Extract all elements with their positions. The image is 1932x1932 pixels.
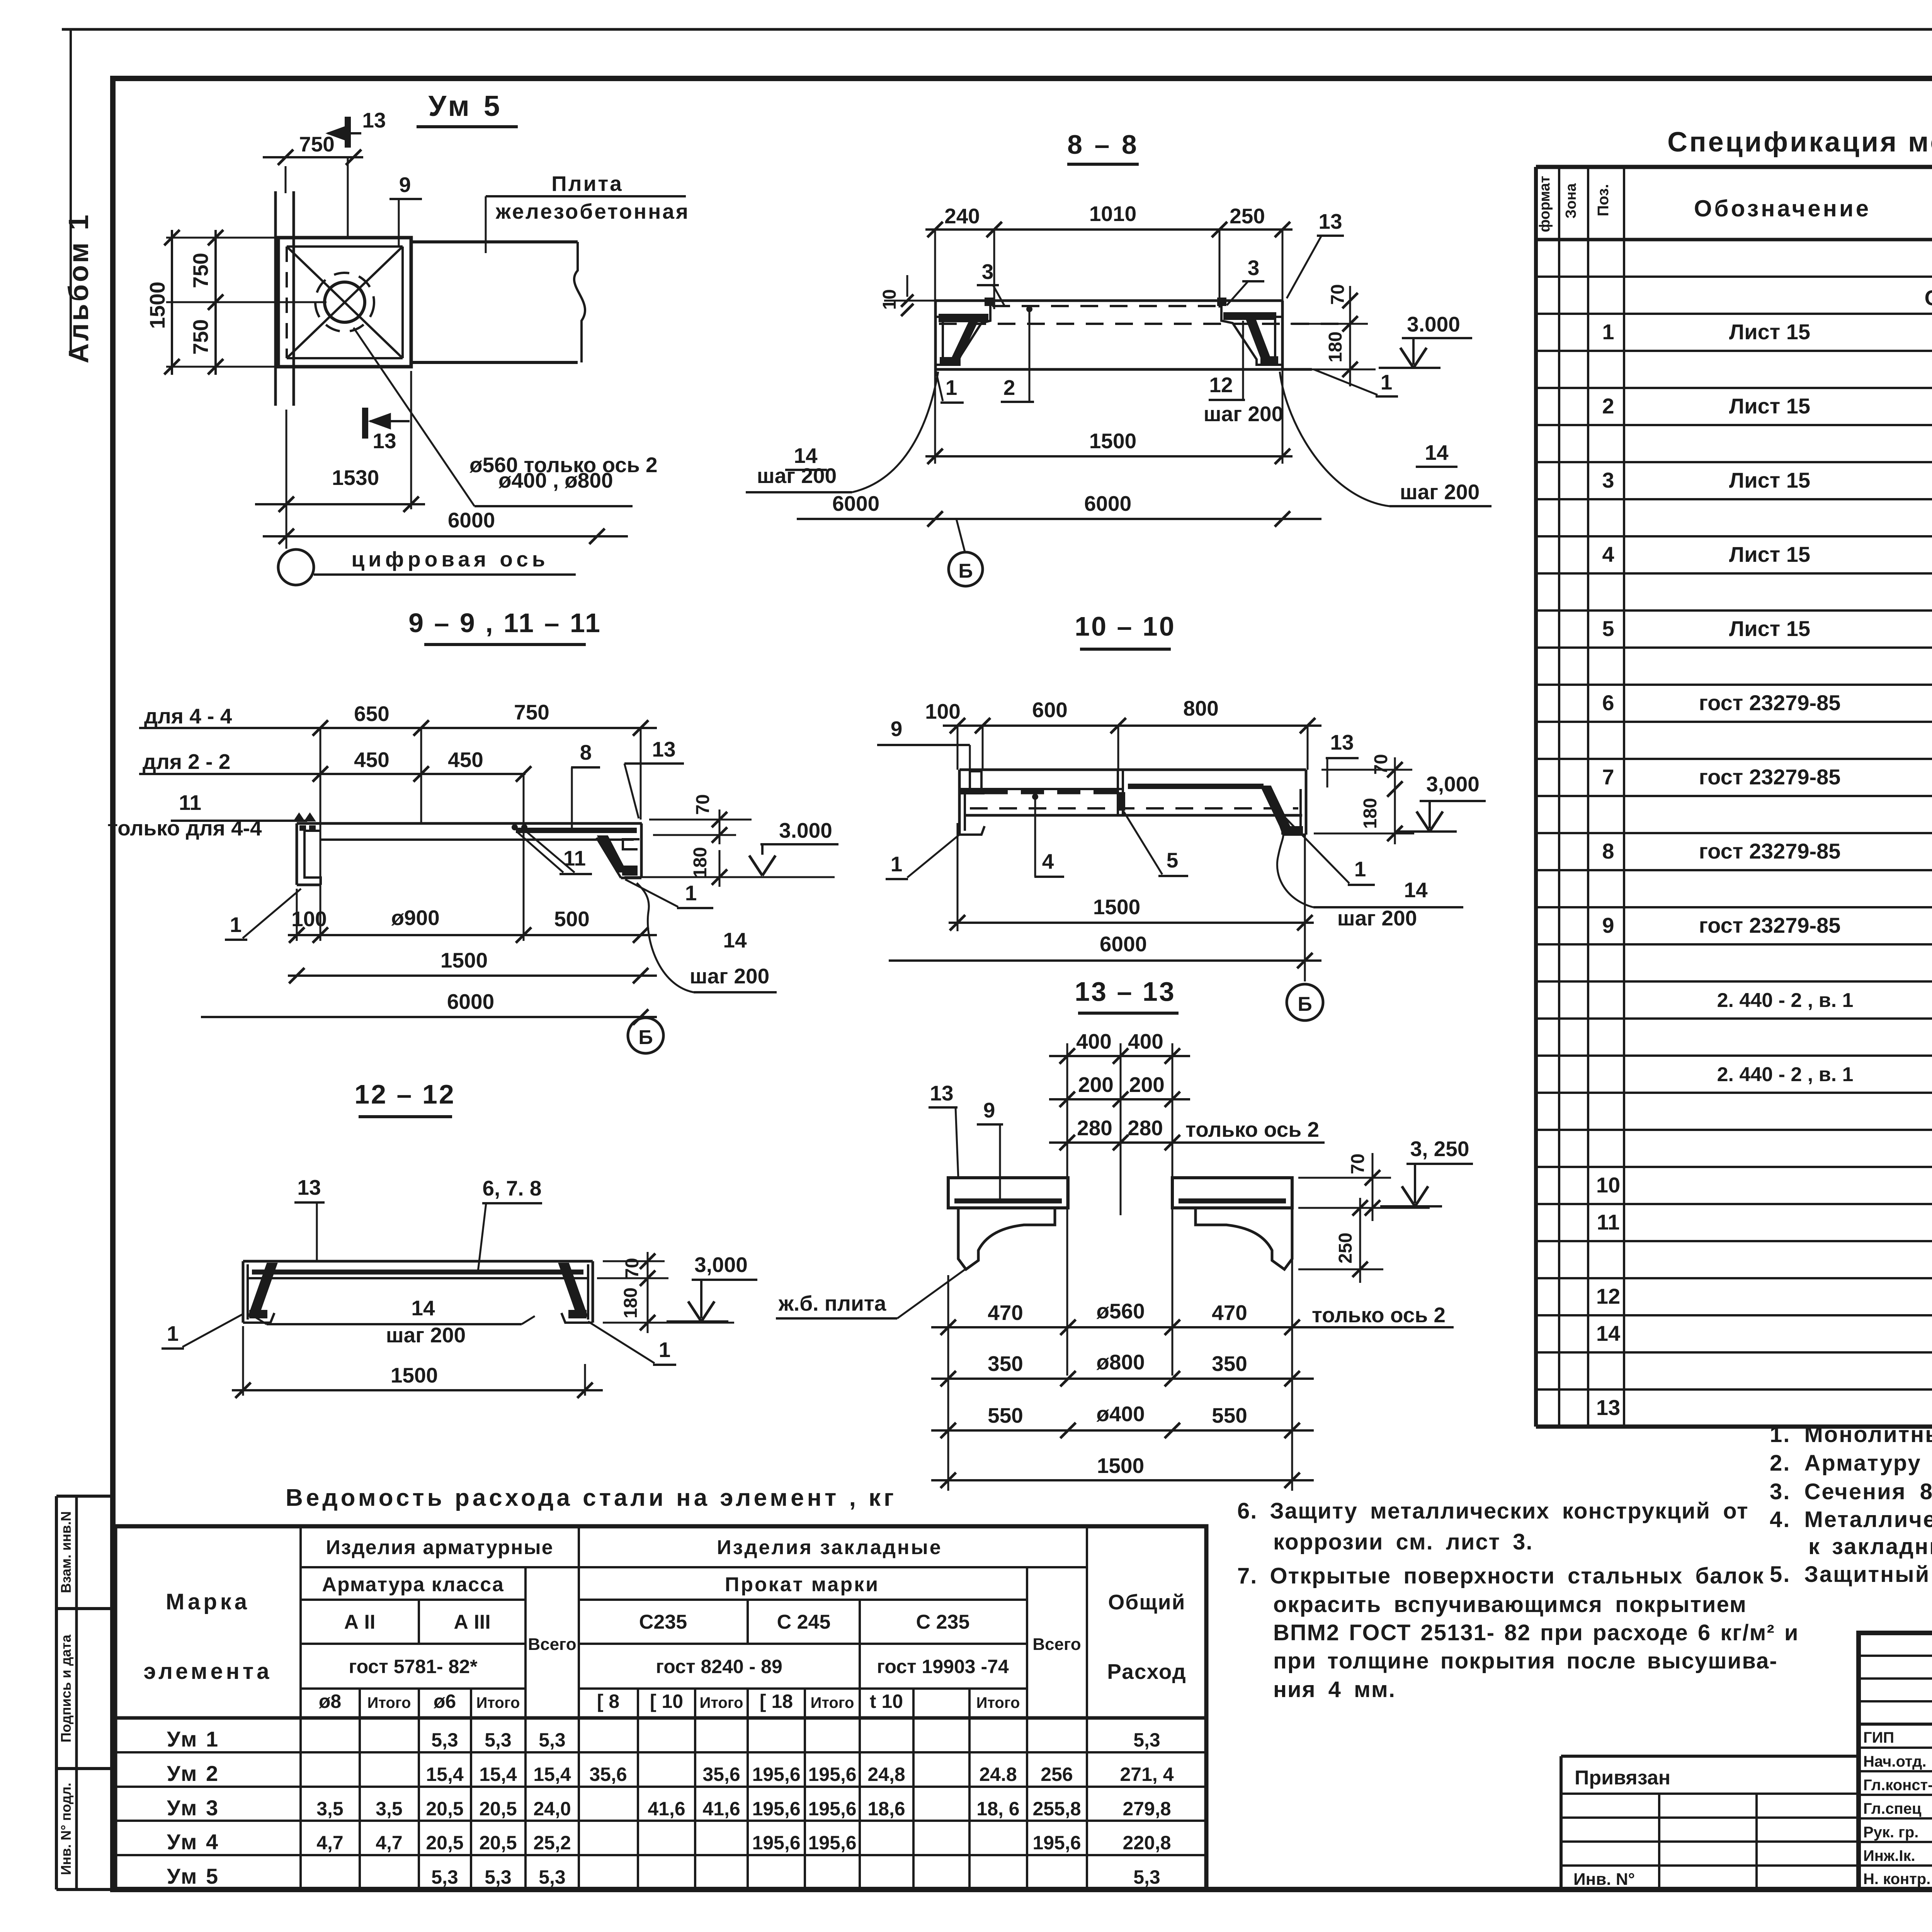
svg-text:20,5: 20,5 xyxy=(426,1798,463,1820)
dim row 350 f800 350 xyxy=(931,1378,1314,1380)
svg-text:5,3: 5,3 xyxy=(1133,1866,1160,1888)
left channel 12-12 xyxy=(242,1261,245,1323)
digital axis circle xyxy=(278,549,314,585)
svg-text:800: 800 xyxy=(1183,696,1219,720)
right diagonal dark 12-12 xyxy=(559,1264,587,1316)
svg-text:Инв. N° подл.: Инв. N° подл. xyxy=(58,1782,74,1875)
svg-text:13: 13 xyxy=(1318,209,1342,233)
opening circle solid xyxy=(325,282,365,322)
dim 1500 12-12 xyxy=(232,1389,603,1391)
left top tab poz9 xyxy=(970,771,981,789)
svg-text:35,6: 35,6 xyxy=(589,1764,627,1785)
svg-text:5,3: 5,3 xyxy=(485,1729,512,1751)
svg-text:18,6: 18,6 xyxy=(867,1798,905,1820)
svg-text:350: 350 xyxy=(988,1352,1023,1376)
left support diagonal dark xyxy=(950,321,978,363)
svg-text:25,2: 25,2 xyxy=(533,1832,571,1854)
svg-text:4: 4 xyxy=(1602,542,1614,566)
svg-text:Сборочные единицы: Сборочные единицы xyxy=(1925,286,1932,310)
spec table verticals xyxy=(1534,167,1538,1427)
dim 6000 8-8 xyxy=(797,518,1321,520)
svg-text:2. Арматуру сеток в местах: 2. Арматуру сеток в местах отверстий выр… xyxy=(1770,1451,1932,1476)
svg-text:10: 10 xyxy=(879,289,900,310)
bottom dim verticals 13-13 xyxy=(947,1275,949,1491)
svg-text:4,7: 4,7 xyxy=(316,1832,344,1854)
svg-text:1: 1 xyxy=(659,1338,671,1362)
svg-text:1500: 1500 xyxy=(1097,1454,1144,1478)
leader from circle to labels xyxy=(354,328,474,506)
svg-text:2: 2 xyxy=(1602,394,1614,418)
svg-text:250: 250 xyxy=(1335,1233,1356,1264)
svg-text:ВПМ2 ГОСТ 25131- 82 при рас: ВПМ2 ГОСТ 25131- 82 при расходе 6 кг/м² … xyxy=(1273,1620,1799,1645)
svg-text:Лист 15: Лист 15 xyxy=(1729,542,1810,566)
svg-text:коррозии см. лист 3.: коррозии см. лист 3. xyxy=(1273,1529,1533,1554)
svg-text:280: 280 xyxy=(1128,1116,1163,1140)
svg-text:1: 1 xyxy=(1602,320,1614,344)
svg-text:Итого: Итого xyxy=(976,1694,1020,1711)
slab top line 10-10 xyxy=(959,769,1306,771)
dim 1500 8-8 xyxy=(925,455,1293,457)
svg-text:С 235: С 235 xyxy=(916,1611,970,1633)
dim 6000 9-9 xyxy=(201,1016,657,1018)
svg-text:Подпись и дата: Подпись и дата xyxy=(58,1634,74,1743)
svg-text:6000: 6000 xyxy=(832,492,879,515)
svg-text:4: 4 xyxy=(1042,849,1054,873)
svg-text:470: 470 xyxy=(1212,1301,1247,1325)
svg-text:100: 100 xyxy=(925,699,961,723)
svg-text:750: 750 xyxy=(189,319,213,355)
svg-text:180: 180 xyxy=(621,1287,641,1318)
right end channel hook 9-9 xyxy=(623,839,639,849)
svg-text:14: 14 xyxy=(1425,440,1449,464)
digital axis label line xyxy=(314,573,576,576)
svg-text:[ 10: [ 10 xyxy=(650,1690,683,1712)
svg-text:Зона: Зона xyxy=(1563,183,1579,219)
svg-text:250: 250 xyxy=(1230,204,1265,228)
dim 6000 10-10 xyxy=(889,959,1321,962)
svg-text:Инж.Iк.: Инж.Iк. xyxy=(1863,1847,1915,1864)
svg-text:только ось 2: только ось 2 xyxy=(1312,1303,1446,1327)
section cut mark 13 top xyxy=(345,117,351,148)
svg-text:180: 180 xyxy=(1325,332,1346,362)
svg-text:400: 400 xyxy=(1128,1029,1163,1053)
dim 6000 plan xyxy=(263,535,628,537)
svg-text:5. Защитный слой до рабоче: 5. Защитный слой до рабочей арматуры - 2… xyxy=(1770,1562,1932,1587)
svg-text:15,4: 15,4 xyxy=(426,1764,464,1785)
dim 100 f900 500 xyxy=(288,934,657,936)
svg-text:20,5: 20,5 xyxy=(479,1798,517,1820)
svg-text:10 – 10: 10 – 10 xyxy=(1075,611,1176,641)
svg-text:3: 3 xyxy=(1602,468,1614,492)
svg-text:Н. контр.: Н. контр. xyxy=(1863,1871,1930,1888)
svg-text:1500: 1500 xyxy=(391,1363,438,1387)
svg-text:180: 180 xyxy=(1360,798,1381,829)
svg-text:750: 750 xyxy=(189,253,213,288)
svg-text:6: 6 xyxy=(1602,690,1614,715)
svg-text:8 – 8: 8 – 8 xyxy=(1067,129,1139,160)
plate band bottom line xyxy=(411,361,578,364)
svg-text:Гл.спец: Гл.спец xyxy=(1863,1800,1922,1817)
slab dashed line 10-10 xyxy=(970,807,1298,810)
svg-text:1: 1 xyxy=(1381,370,1393,394)
svg-text:70: 70 xyxy=(693,794,713,815)
dim 750 750 left vertical xyxy=(214,230,217,375)
dim 1500 10-10 xyxy=(949,922,1314,924)
svg-text:24,8: 24,8 xyxy=(867,1764,905,1785)
svg-text:15,4: 15,4 xyxy=(533,1764,571,1785)
svg-text:А III: А III xyxy=(454,1611,490,1633)
svg-text:1: 1 xyxy=(230,913,242,937)
dim 400 400 xyxy=(1049,1055,1190,1057)
svg-text:Итого: Итого xyxy=(367,1694,411,1711)
svg-text:13: 13 xyxy=(297,1175,321,1199)
svg-text:С 245: С 245 xyxy=(777,1611,831,1633)
svg-text:5,3: 5,3 xyxy=(431,1866,458,1888)
dim 200 200 xyxy=(1049,1098,1190,1100)
svg-text:14: 14 xyxy=(723,928,747,952)
plate break line xyxy=(574,242,585,362)
section cut mark 13 bottom xyxy=(362,408,368,439)
right channel 10-10 xyxy=(1305,770,1308,835)
svg-text:Лист 15: Лист 15 xyxy=(1729,468,1810,492)
svg-text:ø8: ø8 xyxy=(319,1690,341,1712)
spec table row lines xyxy=(1536,276,1932,278)
svg-text:240: 240 xyxy=(944,204,980,228)
svg-text:гост 23279-85: гост 23279-85 xyxy=(1699,765,1841,789)
svg-text:элемента: элемента xyxy=(143,1659,272,1684)
svg-text:13 – 13: 13 – 13 xyxy=(1075,976,1176,1007)
svg-text:ж.б. плита: ж.б. плита xyxy=(778,1291,886,1315)
svg-text:шаг 200: шаг 200 xyxy=(1337,906,1417,930)
mesh dots on plate xyxy=(512,824,518,830)
svg-text:Итого: Итого xyxy=(476,1694,520,1711)
svg-text:Рук. гр.: Рук. гр. xyxy=(1863,1824,1918,1841)
svg-text:195,6: 195,6 xyxy=(1032,1832,1081,1854)
svg-text:шаг 200: шаг 200 xyxy=(690,964,769,988)
dim 280 280 только ось 2 xyxy=(1049,1141,1325,1144)
svg-text:2: 2 xyxy=(1003,376,1015,400)
svg-text:7: 7 xyxy=(1602,765,1614,789)
svg-text:9: 9 xyxy=(1602,913,1614,937)
svg-text:7. Открытые поверхности стал: 7. Открытые поверхности стальных балок xyxy=(1237,1563,1764,1588)
svg-text:6000: 6000 xyxy=(1100,932,1147,956)
svg-text:400: 400 xyxy=(1076,1029,1112,1053)
svg-text:для 4 - 4: для 4 - 4 xyxy=(144,704,232,728)
slab bottom line 10-10 xyxy=(966,814,1302,817)
svg-text:195,6: 195,6 xyxy=(752,1764,800,1785)
svg-text:70: 70 xyxy=(1371,754,1391,774)
svg-text:Изделия арматурные: Изделия арматурные xyxy=(326,1536,553,1559)
left stamp boxes xyxy=(56,1495,111,1498)
svg-text:8: 8 xyxy=(580,740,592,764)
label 4 with leader xyxy=(1032,794,1038,800)
svg-text:24.8: 24.8 xyxy=(979,1764,1017,1785)
svg-text:Альбом 1: Альбом 1 xyxy=(63,213,94,364)
dim 1500 left vertical xyxy=(171,230,173,375)
title block outer xyxy=(1859,1633,1932,1889)
svg-text:Взам. инв.N: Взам. инв.N xyxy=(58,1511,74,1593)
svg-text:окрасить вспучивающимся покр: окрасить вспучивающимся покрытием xyxy=(1273,1592,1747,1617)
svg-text:Плита: Плита xyxy=(551,172,623,196)
svg-text:Всего: Всего xyxy=(528,1635,576,1654)
svg-text:Прокат марки: Прокат марки xyxy=(725,1573,879,1596)
dim row 550 f400 550 xyxy=(931,1429,1314,1432)
svg-text:Б: Б xyxy=(638,1026,653,1049)
svg-text:6, 7. 8: 6, 7. 8 xyxy=(483,1176,542,1200)
svg-text:Итого: Итого xyxy=(700,1694,743,1711)
svg-text:14: 14 xyxy=(411,1296,435,1320)
mid joint 10-10 xyxy=(1117,770,1119,815)
left support outline xyxy=(934,301,937,369)
svg-text:13: 13 xyxy=(372,429,396,453)
svg-text:Лист 15: Лист 15 xyxy=(1729,394,1810,418)
svg-text:ø400 , ø800: ø400 , ø800 xyxy=(498,468,613,492)
svg-text:650: 650 xyxy=(354,702,389,726)
svg-text:9 – 9 , 11 – 11: 9 – 9 , 11 – 11 xyxy=(408,608,602,638)
svg-text:70: 70 xyxy=(1328,284,1348,304)
svg-text:13: 13 xyxy=(652,737,675,761)
svg-text:1500: 1500 xyxy=(440,948,488,972)
dim 1500 9-9 xyxy=(288,975,657,977)
svg-text:для 2 - 2: для 2 - 2 xyxy=(143,750,230,774)
svg-text:255,8: 255,8 xyxy=(1032,1798,1081,1820)
svg-text:195,6: 195,6 xyxy=(752,1832,800,1854)
svg-text:1: 1 xyxy=(1354,857,1366,881)
svg-text:Ум 2: Ум 2 xyxy=(167,1761,219,1786)
svg-text:13: 13 xyxy=(930,1081,953,1105)
svg-text:только ось 2: только ось 2 xyxy=(1185,1117,1319,1141)
svg-text:Инв. N°: Инв. N° xyxy=(1573,1870,1635,1889)
svg-text:195,6: 195,6 xyxy=(808,1798,856,1820)
spec table outer top xyxy=(1536,165,1932,169)
svg-text:Ум 1: Ум 1 xyxy=(167,1727,219,1751)
dim 750 top xyxy=(263,156,363,158)
svg-text:1: 1 xyxy=(891,852,903,876)
svg-text:18, 6: 18, 6 xyxy=(976,1798,1019,1820)
right plate 13-13 xyxy=(1172,1178,1292,1208)
steel table verticals xyxy=(359,1689,361,1889)
svg-text:35,6: 35,6 xyxy=(702,1764,740,1785)
svg-text:Общий: Общий xyxy=(1108,1590,1186,1614)
svg-text:350: 350 xyxy=(1212,1352,1247,1376)
right support diagonal dark xyxy=(1247,319,1271,362)
slab bottom line 12-12 xyxy=(248,1277,588,1279)
slab dashed line upper xyxy=(992,305,1220,307)
svg-text:С235: С235 xyxy=(639,1611,687,1633)
svg-text:к закладным деталям железоб: к закладным деталям железобетонных балок… xyxy=(1808,1534,1932,1559)
svg-text:ГИП: ГИП xyxy=(1863,1729,1894,1746)
svg-text:гост 19903 -74: гост 19903 -74 xyxy=(877,1656,1009,1677)
svg-text:3.000: 3.000 xyxy=(1407,312,1460,336)
poz3 channel end dark right xyxy=(1217,298,1226,306)
svg-text:5,3: 5,3 xyxy=(539,1866,566,1888)
svg-text:Нач.отд.: Нач.отд. xyxy=(1863,1753,1926,1770)
svg-text:13: 13 xyxy=(362,108,386,132)
square diagonal 2 xyxy=(287,247,403,358)
left channel 10-10 xyxy=(958,770,961,835)
svg-text:цифровая ось: цифровая ось xyxy=(351,547,549,571)
svg-text:3: 3 xyxy=(982,260,994,284)
svg-text:шаг 200: шаг 200 xyxy=(386,1323,466,1347)
plate band top line xyxy=(411,240,578,243)
monolithic area square inner xyxy=(287,245,403,248)
right bracket 9-9 xyxy=(640,823,643,878)
ladder verticals 13-13 xyxy=(1066,1043,1068,1376)
spec header bottom line xyxy=(1536,238,1932,241)
svg-text:195,6: 195,6 xyxy=(752,1798,800,1820)
svg-text:3,5: 3,5 xyxy=(316,1798,344,1820)
svg-text:5,3: 5,3 xyxy=(485,1866,512,1888)
svg-text:15,4: 15,4 xyxy=(479,1764,517,1785)
svg-text:11: 11 xyxy=(179,791,201,815)
svg-text:24,0: 24,0 xyxy=(533,1798,571,1820)
svg-text:12: 12 xyxy=(1596,1284,1620,1308)
svg-text:Марка: Марка xyxy=(166,1589,250,1614)
svg-text:Ум 4: Ум 4 xyxy=(167,1830,219,1854)
svg-text:1: 1 xyxy=(946,376,957,400)
left bracket 13-13 xyxy=(958,1208,1055,1269)
svg-text:ø6: ø6 xyxy=(434,1690,456,1712)
svg-text:5: 5 xyxy=(1167,848,1179,872)
svg-text:1500: 1500 xyxy=(1093,895,1140,919)
svg-text:3,000: 3,000 xyxy=(1426,772,1480,796)
svg-text:гост 23279-85: гост 23279-85 xyxy=(1699,839,1841,863)
svg-text:2. 440 - 2 , в. 1: 2. 440 - 2 , в. 1 xyxy=(1717,1063,1854,1086)
svg-text:шаг 200: шаг 200 xyxy=(1400,480,1480,504)
svg-text:6000: 6000 xyxy=(448,508,495,532)
svg-text:1500: 1500 xyxy=(1089,429,1136,453)
slab dashed line lower xyxy=(939,323,1345,325)
svg-text:Всего: Всего xyxy=(1032,1635,1081,1654)
right bracket diagonal dark xyxy=(598,836,626,872)
extension verticals 8-8 xyxy=(934,230,936,301)
svg-text:271, 4: 271, 4 xyxy=(1120,1764,1173,1785)
steel table outer xyxy=(115,1526,1206,1889)
svg-text:t 10: t 10 xyxy=(870,1690,903,1712)
dim row 470 f560 470 только ось 2 xyxy=(931,1326,1454,1328)
svg-text:20,5: 20,5 xyxy=(479,1832,517,1854)
right support outline xyxy=(1281,301,1284,369)
svg-text:12 – 12: 12 – 12 xyxy=(354,1079,456,1109)
right support bottom plate dark xyxy=(1260,356,1278,365)
embedded plate thick line 9-9 xyxy=(516,828,637,833)
svg-text:3, 250: 3, 250 xyxy=(1410,1137,1469,1161)
svg-text:11: 11 xyxy=(1597,1210,1619,1234)
svg-text:280: 280 xyxy=(1077,1116,1112,1140)
svg-text:ø400: ø400 xyxy=(1096,1402,1145,1426)
sheet left edge line segment xyxy=(70,29,72,352)
axis circle B 8-8 xyxy=(956,519,965,552)
right channel 12-12 xyxy=(592,1261,594,1323)
svg-text:600: 600 xyxy=(1032,698,1068,722)
axis circle B 9-9 xyxy=(628,1018,663,1053)
dim row 1500 13-13 xyxy=(931,1479,1314,1481)
svg-text:шаг 200: шаг 200 xyxy=(757,464,837,488)
mesh dashed thick left part xyxy=(985,790,1118,794)
svg-text:ø800: ø800 xyxy=(1096,1350,1145,1374)
slab bottom line 9-9 xyxy=(321,838,634,841)
svg-text:ø900: ø900 xyxy=(391,906,439,930)
extension lines left dims xyxy=(166,237,278,239)
svg-text:Ведомость расхода стали: Ведомость расхода стали на элемент , кг xyxy=(286,1485,897,1511)
svg-text:195,6: 195,6 xyxy=(808,1832,856,1854)
opening circle dashed xyxy=(315,273,374,332)
svg-text:3,5: 3,5 xyxy=(376,1798,403,1820)
svg-text:Б: Б xyxy=(958,560,973,582)
svg-text:1530: 1530 xyxy=(332,466,379,490)
beam slab top line xyxy=(935,299,1282,302)
svg-text:3.000: 3.000 xyxy=(779,818,832,842)
svg-text:Ум 3: Ум 3 xyxy=(167,1796,219,1820)
left support channel flange dark xyxy=(939,314,988,322)
left channel 9-9 xyxy=(296,823,298,885)
left plate 13-13 xyxy=(948,1178,1068,1208)
svg-text:шаг 200: шаг 200 xyxy=(1204,402,1283,426)
svg-text:195,6: 195,6 xyxy=(808,1764,856,1785)
svg-text:3,000: 3,000 xyxy=(694,1253,748,1277)
svg-text:9: 9 xyxy=(983,1098,995,1122)
svg-text:Лист 15: Лист 15 xyxy=(1729,616,1810,641)
svg-text:железобетонная: железобетонная xyxy=(495,199,690,223)
svg-text:750: 750 xyxy=(514,700,549,724)
svg-text:500: 500 xyxy=(554,907,590,931)
svg-text:гост 5781- 82*: гост 5781- 82* xyxy=(349,1656,478,1677)
svg-text:6000: 6000 xyxy=(447,990,494,1014)
svg-text:А II: А II xyxy=(344,1611,376,1633)
label 2 leader xyxy=(1029,309,1031,401)
svg-text:8: 8 xyxy=(1602,839,1614,863)
svg-text:3. Сечения 8-8... 12-12 обо: 3. Сечения 8-8... 12-12 обозначены на ли… xyxy=(1770,1479,1932,1504)
spec table bottom xyxy=(1536,1425,1932,1429)
svg-text:9: 9 xyxy=(399,173,411,197)
svg-text:4,7: 4,7 xyxy=(376,1832,403,1854)
svg-text:[ 18: [ 18 xyxy=(760,1690,793,1712)
svg-text:9: 9 xyxy=(891,717,903,741)
svg-text:6. Защиту металлических конс: 6. Защиту металлических конструкций от xyxy=(1237,1498,1749,1524)
svg-text:13: 13 xyxy=(1596,1395,1620,1420)
sheet outer border top line xyxy=(62,28,1932,31)
svg-text:Лист 15: Лист 15 xyxy=(1729,320,1810,344)
svg-text:14: 14 xyxy=(1404,878,1428,902)
slab top line 9-9 xyxy=(297,822,642,825)
svg-text:12: 12 xyxy=(1209,373,1233,397)
Привязан box xyxy=(1561,1755,1859,1758)
right support channel flange dark xyxy=(1223,312,1276,320)
svg-text:1500: 1500 xyxy=(145,282,169,329)
svg-text:Ум 5: Ум 5 xyxy=(167,1864,219,1888)
poz3 channel end dark left xyxy=(985,298,994,306)
svg-text:гост 23279-85: гост 23279-85 xyxy=(1699,690,1841,715)
svg-text:при толщине покрытия после: при толщине покрытия после высушива- xyxy=(1273,1648,1778,1673)
svg-text:гост 8240 - 89: гост 8240 - 89 xyxy=(656,1656,782,1677)
svg-text:5,3: 5,3 xyxy=(1133,1729,1160,1751)
svg-text:450: 450 xyxy=(448,748,483,772)
svg-text:Ум 5: Ум 5 xyxy=(429,90,503,122)
axis line B 10-10 xyxy=(1304,835,1306,981)
dim 100 600 800 xyxy=(943,724,1321,727)
embedded plate thick line 12-12 xyxy=(252,1270,583,1275)
svg-text:5,3: 5,3 xyxy=(431,1729,458,1751)
right channel diagonal dark xyxy=(1261,786,1290,827)
svg-text:Б: Б xyxy=(1298,993,1312,1015)
svg-text:Расход: Расход xyxy=(1107,1660,1186,1684)
svg-text:41,6: 41,6 xyxy=(702,1798,740,1820)
svg-text:2. 440 - 2 , в. 1: 2. 440 - 2 , в. 1 xyxy=(1717,989,1854,1012)
svg-text:550: 550 xyxy=(988,1403,1023,1427)
svg-text:1: 1 xyxy=(685,881,697,905)
svg-text:14: 14 xyxy=(1596,1321,1620,1345)
svg-text:Привязан: Привязан xyxy=(1575,1767,1670,1789)
